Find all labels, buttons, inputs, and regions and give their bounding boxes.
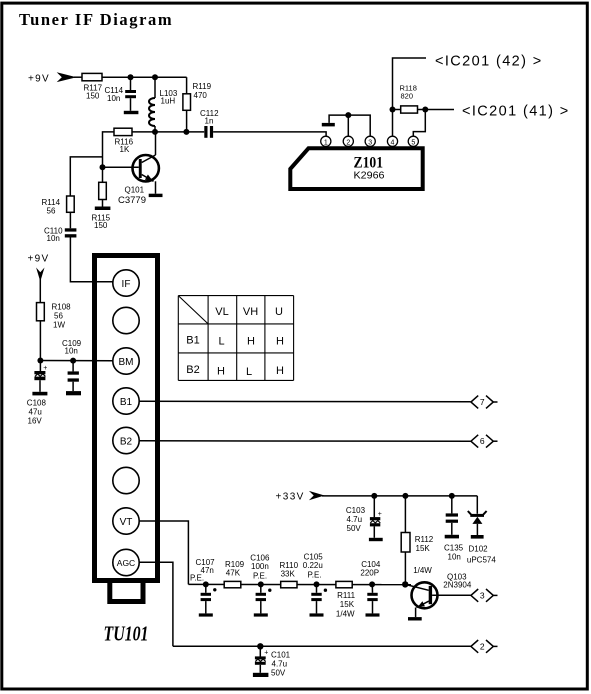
capacitor C135 10n [451,496,453,514]
svg-text:3: 3 [480,590,485,600]
ground stub bar (pin1 side) [322,123,335,127]
svg-text:P.E.: P.E. [253,571,267,580]
connector <6> [471,435,498,448]
svg-text:15K: 15K [416,544,431,553]
svg-text:<IC201 (41) >: <IC201 (41) > [462,104,570,120]
junction C135 [449,493,455,499]
ground (under C106) [254,613,268,616]
resistor R108 56 1W [37,303,45,321]
capacitor C101 4.7u 50V (electrolytic) [259,646,261,656]
svg-text:2N3904: 2N3904 [443,581,472,590]
resistor R115 150 [102,167,104,182]
wire arrow to R108 [39,279,41,303]
svg-text:R108: R108 [52,303,72,312]
pin (blank upper) [113,307,139,333]
junction rail/C114 [128,74,134,80]
resistor R110 33K [281,581,297,587]
svg-text:150: 150 [94,221,108,230]
svg-text:B2: B2 [120,436,133,447]
+33V feed arrow [309,491,325,500]
svg-text:C3779: C3779 [118,195,146,206]
connector <2> [471,640,498,653]
tuner TU101 box [95,256,158,581]
table texts [186,306,284,378]
ground (under Q101 emitter) [149,194,163,197]
ground (under C135) [445,535,459,539]
svg-text:10n: 10n [47,234,60,243]
band table grid [178,296,293,381]
wire bottom rail to <2> [173,645,471,647]
svg-text:P.E.: P.E. [308,571,322,580]
svg-text:1/4W: 1/4W [413,566,432,575]
svg-text:R119: R119 [193,82,212,91]
svg-text:4: 4 [391,139,395,146]
resistor R112 15K 1/4W [404,496,406,533]
junction C107 [203,581,209,587]
wire VT to signal rail [139,521,188,584]
svg-text:R111: R111 [337,591,355,600]
svg-text:1: 1 [324,139,328,146]
svg-text:R112: R112 [415,535,434,544]
svg-text:2: 2 [346,139,350,146]
SAW filter Z101 K2966 body [290,148,422,189]
svg-text:10n: 10n [65,347,78,356]
svg-text:47K: 47K [226,569,241,578]
junction C103 [371,493,377,499]
pin 3 [365,136,375,146]
ground (under C109) [66,391,81,395]
junction L103/collector [152,129,158,135]
wire Q103 collector to <3> [432,594,470,596]
wire B1 to <7> [139,400,470,403]
svg-text:1/4W: 1/4W [336,609,355,618]
ground (under C105) [310,613,324,616]
resistor R114 56 [67,196,75,212]
svg-text:+: + [43,365,47,372]
svg-text:4.7u: 4.7u [347,515,363,524]
svg-text:+: + [378,511,382,518]
svg-text:6: 6 [480,436,485,446]
svg-text:47u: 47u [29,408,42,417]
ground (under C108) [32,392,47,396]
wire C110 to IF pin [70,238,113,282]
ground (under C103) [369,538,383,541]
junction bridge/pin2 [345,112,351,118]
wire pin4 to IC201(42) [393,58,427,136]
svg-text:B1: B1 [186,335,199,347]
+9V feed arrow [57,72,77,82]
junction C104 [369,581,375,587]
svg-text:+9V: +9V [28,73,50,84]
svg-text:+9V: +9V [28,254,50,265]
wire B2 to <6> [139,440,470,442]
svg-text:K2966: K2966 [354,170,385,182]
junction R112 [402,493,408,499]
svg-text:L: L [218,336,224,348]
pin AGC [113,549,139,575]
svg-text:10n: 10n [448,553,461,562]
svg-text:56: 56 [47,207,56,216]
svg-text:470: 470 [194,91,208,100]
svg-text:33K: 33K [281,570,296,579]
resistor R118 820 [401,106,418,113]
svg-text:7: 7 [480,397,485,407]
wire R108 to BM [39,321,41,361]
capacitor C114 10n [130,77,132,90]
svg-text:1uH: 1uH [161,97,176,106]
wire pin2 pin3 bridge [348,115,370,136]
svg-text:<IC201 (42) >: <IC201 (42) > [435,54,543,70]
transistor Q103 2N3904 [405,584,429,590]
junction R112/Q103 base [402,581,408,587]
pin 1 [321,136,331,146]
junction R119/rail [183,129,189,135]
connector <7> [471,396,498,409]
pin 2 [343,136,353,146]
wire C112 to Z101 pin1 [213,132,326,136]
transistor Q101 C3779 [133,155,159,181]
svg-text:+33V: +33V [276,491,305,502]
resistor R116 1K [114,128,132,135]
svg-text:5: 5 [411,139,415,146]
capacitor C112 1n [204,126,207,138]
svg-text:Q101: Q101 [125,186,145,195]
capacitor C107 47n P.E. [205,584,207,592]
wire bridge stub [329,115,348,123]
svg-text:VH: VH [243,306,258,318]
svg-text:TU101: TU101 [104,622,149,646]
ground (under C101) [253,673,269,677]
junction C105 [314,581,320,587]
resistor R117 150 [82,73,102,80]
svg-text:H: H [247,336,255,348]
svg-text:1n: 1n [205,117,214,126]
svg-text:H: H [276,365,284,377]
pin VT [113,508,139,534]
svg-text:BM: BM [119,357,134,368]
wire junction to pin5 [413,110,425,137]
svg-text:Tuner IF Diagram: Tuner IF Diagram [19,10,173,29]
ground (under C114) [124,111,139,114]
svg-text:B2: B2 [186,364,199,376]
junction rail/L103 [152,74,158,80]
pin (blank lower) [113,467,139,493]
svg-text:IF: IF [122,279,131,290]
capacitor C109 10n [72,361,74,372]
pin 4 [387,136,397,146]
junction C109 [70,358,76,364]
svg-text:VL: VL [215,306,228,318]
wire AGC down to bottom rail [140,562,173,646]
capacitor C104 220P [371,584,373,592]
pin BM [113,348,139,374]
wire signal rail [188,583,411,585]
svg-text:2: 2 [480,641,485,651]
svg-text:50V: 50V [271,669,286,678]
junction R118/pin5 [422,107,428,113]
wire Q101 emitter down [155,181,157,193]
wire +9V rail [102,76,187,78]
svg-text:150: 150 [86,92,100,101]
resistor R111 15K 1/4W [336,581,352,587]
wire R116 left to base node [103,132,115,167]
svg-text:3: 3 [368,139,372,146]
tuner connector tab [110,583,143,602]
svg-text:P.E.: P.E. [190,574,204,583]
svg-text:220P: 220P [360,569,379,578]
svg-text:L: L [246,366,252,378]
svg-text:0.22u: 0.22u [303,561,323,570]
svg-text:C103: C103 [346,506,366,515]
wire R118 to IC201(41) [393,109,401,111]
resistor R119 470 [186,77,188,94]
svg-text:1K: 1K [120,145,130,154]
svg-text:10n: 10n [107,94,120,103]
junction R108/C108 [37,358,43,364]
svg-text:C135: C135 [444,544,464,553]
svg-text:15K: 15K [340,600,355,609]
wire Q101 collector up [155,132,157,155]
wire base node to Q101 base [103,166,139,168]
svg-text:B1: B1 [120,397,133,408]
junction base node [100,164,106,170]
svg-text:16V: 16V [28,417,43,426]
svg-text:4.7u: 4.7u [272,660,288,669]
ground (under C104) [366,613,380,616]
capacitor C103 4.7u 50V (electrolytic) [373,496,375,517]
pin B1 [113,388,139,414]
wire arrow to R117 [74,76,82,78]
svg-text:+: + [264,650,268,657]
svg-text:C101: C101 [271,651,291,660]
ground (under C107) [199,613,213,616]
svg-text:uPC574: uPC574 [467,556,496,565]
zener diode D102 uPC574 [476,496,478,514]
wire R114 to C110 [69,212,71,228]
resistor R109 47K [224,581,241,587]
inductor L103 1uH [154,77,156,98]
ground (under Q103 emitter) [408,617,422,620]
wire second rail (R116 to C112) [132,131,204,133]
wire +33V rail [322,495,477,497]
pin B2 [113,427,139,453]
svg-text:H: H [276,336,284,348]
svg-text:VT: VT [120,517,133,528]
svg-text:820: 820 [401,92,414,101]
capacitor C110 10n [65,228,77,231]
ground (under R115) [95,207,111,211]
svg-text:H: H [217,366,225,378]
junction C106 [258,581,264,587]
svg-text:1W: 1W [53,321,65,330]
svg-text:D102: D102 [469,545,489,554]
junction pin4/R118 [390,107,396,113]
wire branch to R114 [70,157,102,196]
capacitor C106 100n P.E. [260,584,262,592]
svg-text:C108: C108 [27,399,47,408]
ground (under D102) [471,535,484,539]
pin IF [113,270,139,296]
connector <3> [471,589,498,602]
pin 5 [408,136,418,146]
capacitor C105 0.22u P.E. [316,584,318,592]
capacitor C108 47u 16V (electrolytic) [39,361,41,372]
svg-text:U: U [275,306,283,318]
junction C101 [257,643,263,649]
svg-text:50V: 50V [347,524,362,533]
svg-text:AGC: AGC [117,558,135,568]
+9V feed arrow (down) [36,268,44,282]
svg-text:100n: 100n [251,562,269,571]
svg-text:56: 56 [54,312,63,321]
